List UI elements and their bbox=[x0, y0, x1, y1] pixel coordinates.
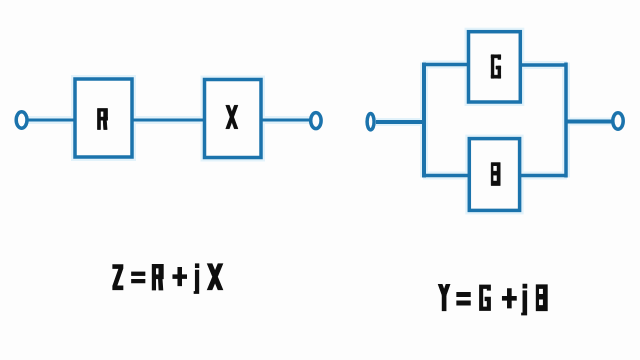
formula Z = R + j X bbox=[113, 264, 223, 294]
wire node A to G bbox=[423, 63, 470, 67]
wire G to node C bbox=[520, 63, 567, 67]
conductance G bbox=[469, 32, 521, 102]
wire T3 to node A bbox=[376, 120, 426, 124]
node A junction bar bbox=[422, 63, 426, 178]
node C junction bar bbox=[564, 63, 568, 178]
right terminal T2 bbox=[311, 113, 321, 129]
wire B to node C bbox=[520, 174, 567, 178]
reactance X bbox=[205, 80, 262, 158]
wire R to X bbox=[132, 119, 205, 122]
susceptance B bbox=[469, 139, 519, 211]
wire node A to B bbox=[423, 174, 471, 178]
wire X to T2 bbox=[261, 119, 310, 122]
left terminal T3 bbox=[367, 114, 374, 130]
wire T1 to R bbox=[28, 119, 76, 122]
resistor R bbox=[75, 79, 132, 157]
right terminal T4 bbox=[613, 113, 623, 129]
left terminal T1 bbox=[16, 112, 27, 128]
wire node C to T4 bbox=[566, 120, 612, 124]
formula Y = G + j B bbox=[438, 284, 547, 315]
